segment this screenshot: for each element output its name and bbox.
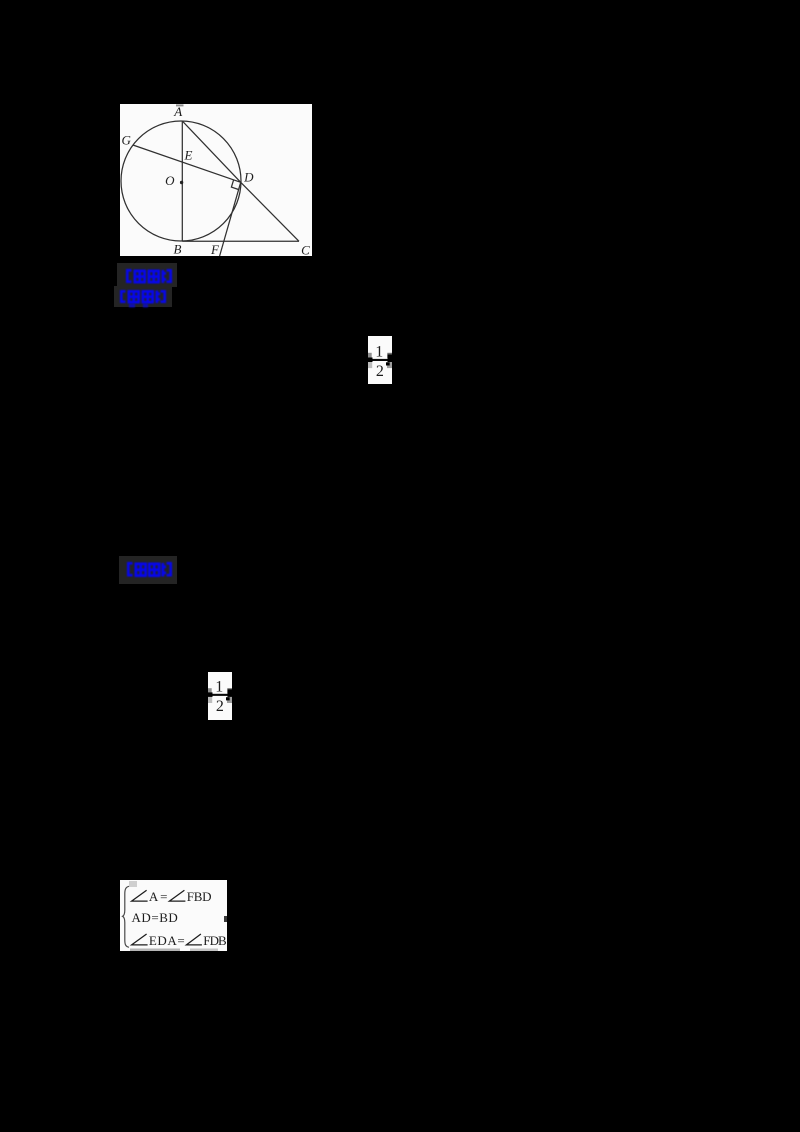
svg-text:A=: A=	[149, 889, 168, 904]
chord AD	[182, 121, 240, 182]
blue caption line 3	[127, 561, 172, 583]
svg-text:1: 1	[375, 343, 383, 360]
svg-text:FBD: FBD	[187, 889, 212, 904]
svg-text:G: G	[122, 133, 132, 148]
right angle mark at D	[231, 180, 238, 190]
svg-text:EDA=: EDA=	[149, 933, 185, 948]
inline fraction 1/2 (first)	[368, 336, 392, 385]
left brace	[123, 886, 129, 947]
right edge dark blob	[224, 916, 227, 922]
gray handle marks	[368, 352, 372, 357]
diameter AB	[181, 121, 183, 241]
svg-text:B: B	[174, 242, 182, 256]
gray handle marks	[208, 688, 212, 693]
bottom gray smudges	[130, 949, 180, 952]
segment DF extended	[220, 182, 241, 256]
chord GD through E	[133, 145, 241, 182]
blue caption line 1	[126, 268, 172, 289]
circle O	[121, 121, 241, 241]
inline fraction 1/2 (second)	[208, 672, 232, 721]
svg-text:A: A	[173, 104, 182, 119]
svg-text:2: 2	[216, 698, 224, 715]
blue caption line 2	[120, 289, 166, 313]
svg-text:E: E	[184, 148, 193, 163]
row 1: angle A = angle FBD	[132, 890, 148, 901]
svg-text:O: O	[165, 173, 175, 188]
blue caption line 1 halo	[117, 263, 177, 287]
svg-text:F: F	[210, 242, 220, 256]
center dot O	[180, 181, 183, 184]
fraction bar	[371, 358, 388, 360]
blue caption line 2 halo	[114, 286, 172, 307]
top edge smudge above A	[176, 104, 184, 106]
segment DC	[241, 182, 299, 241]
svg-text:D: D	[243, 170, 254, 185]
svg-text:1: 1	[215, 678, 223, 695]
equation system image (white panel)	[120, 880, 227, 951]
tangent line BC through F	[182, 240, 299, 242]
svg-text:FDB: FDB	[203, 933, 227, 948]
fraction bar	[211, 694, 228, 696]
svg-text:C: C	[301, 242, 310, 256]
row 3: angle EDA = angle FDB	[132, 934, 148, 945]
top-left gray smudge	[129, 881, 137, 887]
blue caption line 3 halo	[119, 556, 177, 584]
svg-text:AD=BD: AD=BD	[132, 910, 178, 925]
svg-text:2: 2	[376, 362, 384, 379]
geometry figure image (white panel)	[120, 104, 312, 256]
